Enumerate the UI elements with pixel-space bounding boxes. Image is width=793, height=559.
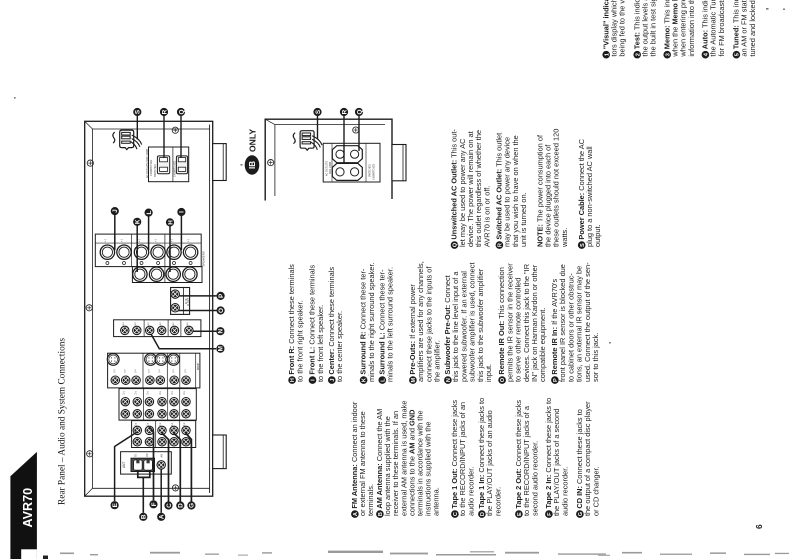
- svg-text:second audio recorder.: second audio recorder.: [530, 441, 539, 516]
- switched AC outlet: [157, 156, 169, 174]
- antenna terminal box: [121, 452, 172, 474]
- callout line D: [174, 433, 181, 502]
- svg-text:Q: Q: [178, 109, 185, 114]
- text item 2 Test: [632, 0, 657, 59]
- text item 4 Auto: [701, 0, 726, 59]
- svg-text:AM: AM: [161, 454, 164, 458]
- svg-text:J: J: [112, 209, 119, 213]
- AC outlet box: [149, 147, 189, 182]
- callout line F: [149, 427, 153, 500]
- svg-text:S: S: [315, 109, 322, 114]
- callout N: [216, 327, 224, 335]
- tape jack: [145, 426, 153, 434]
- callout P: [217, 292, 225, 300]
- text item S Power Cable: [577, 138, 602, 249]
- callout Q: [177, 108, 185, 116]
- AC outlet labels: [146, 148, 176, 178]
- callout I: [177, 208, 185, 216]
- text item B AM Antenna: [375, 401, 441, 518]
- tape jack: [170, 426, 178, 434]
- binding post: [151, 245, 165, 265]
- callout line L: [148, 213, 150, 250]
- power cable icon (main panel): [113, 130, 142, 150]
- svg-text:UNSWITCHED: UNSWITCHED: [173, 161, 176, 177]
- callout line N: [192, 330, 216, 332]
- callout E: [111, 501, 119, 509]
- video RCA jack: [146, 376, 154, 384]
- pre-out jack row box: [114, 320, 201, 337]
- text item I Front L: [308, 265, 325, 384]
- svg-text:AVR70: AVR70: [21, 488, 35, 528]
- IB ONLY label: [245, 129, 260, 175]
- IB callout line S: [317, 116, 319, 139]
- text item 3 Memo: [662, 0, 696, 59]
- video RCA jack: [182, 376, 190, 384]
- callout line R: [163, 116, 165, 158]
- screw: [268, 160, 274, 166]
- video RCA jack: [156, 376, 164, 384]
- IB AC outlet box: [323, 143, 380, 182]
- svg-text:R: R: [161, 109, 168, 114]
- audio jack: [145, 398, 153, 406]
- svg-text:B: B: [141, 514, 148, 519]
- svg-text:MAX 100W: MAX 100W: [329, 161, 332, 174]
- audio jack: [182, 398, 190, 406]
- binding post: [134, 245, 148, 265]
- IB callout S: [313, 108, 321, 116]
- svg-text:+ |: + |: [186, 239, 190, 242]
- screw: [353, 127, 359, 133]
- svg-text:I: I: [179, 211, 186, 213]
- FM antenna terminal 2: [144, 460, 153, 470]
- svg-text:MONIT: MONIT: [198, 362, 200, 370]
- IB switched outlet: [332, 146, 362, 163]
- AVR70 side tab: [10, 452, 48, 559]
- svg-text:the amplifier.: the amplifier.: [433, 340, 442, 382]
- main rear panel outline: [85, 121, 213, 496]
- svg-text:+ |: + |: [120, 239, 124, 242]
- svg-text:information into the tuner.: information into the tuner.: [687, 0, 696, 57]
- text item N Subwoofer Pre-Out: [443, 262, 493, 383]
- speaker terminal box upper: [95, 234, 201, 267]
- s-video connector: [168, 354, 180, 366]
- text item D Tape 1 In: [477, 398, 502, 518]
- s-video connector: [107, 354, 119, 366]
- svg-text:minals to the right surround s: minals to the right surround speaker.: [367, 262, 376, 382]
- s-video connector: [155, 354, 167, 366]
- scan edge noise: [60, 551, 789, 556]
- tape jack: [158, 426, 166, 434]
- IB foot tab: [392, 145, 406, 181]
- callout line A: [160, 470, 162, 513]
- speaker terminal box lower: [132, 267, 202, 283]
- text item A FM Antenna: [350, 401, 375, 518]
- svg-text:input.: input.: [484, 364, 493, 382]
- svg-text:ONLY: ONLY: [248, 129, 258, 152]
- text item Q Unswitched AC Outlet: [450, 129, 492, 249]
- binding post: [100, 245, 114, 265]
- callout D: [176, 501, 184, 509]
- tape jack: [182, 426, 190, 434]
- specks: [14, 8, 785, 344]
- audio jack row box: [119, 389, 196, 421]
- IR out jack: [171, 290, 179, 298]
- callout B: [139, 513, 147, 521]
- svg-text:6: 6: [754, 524, 764, 529]
- text item H Front R: [287, 264, 304, 384]
- tape labels: [135, 422, 187, 426]
- text item P Remote IR In: [550, 262, 600, 384]
- svg-text:compatible equipment.: compatible equipment.: [538, 308, 547, 382]
- svg-text:watts.: watts.: [560, 228, 569, 248]
- text item NOTE: [535, 129, 569, 248]
- svg-text:AVR70 is on or off.: AVR70 is on or off.: [482, 186, 491, 247]
- svg-text:ANT: ANT: [122, 462, 126, 468]
- IB callout R: [340, 108, 348, 116]
- svg-text:P: P: [218, 293, 225, 298]
- video RCA jack: [132, 376, 140, 384]
- callout K: [133, 218, 141, 226]
- audio jack: [133, 398, 141, 406]
- svg-text:C: C: [166, 503, 173, 508]
- IB unswitched outlet: [332, 163, 362, 180]
- callout line P: [177, 295, 217, 297]
- svg-text:M: M: [218, 346, 225, 351]
- callout line O: [177, 310, 217, 312]
- binding post: [183, 245, 197, 265]
- video RCA jack: [122, 376, 130, 384]
- binding post: [183, 267, 197, 281]
- svg-text:antenna.: antenna.: [432, 487, 441, 516]
- IB ONLY panel fragment: [265, 119, 392, 200]
- svg-text:sor to this jack.: sor to this jack.: [591, 333, 600, 382]
- antenna labels: [122, 454, 164, 468]
- svg-text:R: R: [341, 109, 348, 114]
- svg-text:F: F: [151, 502, 158, 506]
- binding post: [166, 267, 180, 281]
- svg-text:for FM broadcasts.: for FM broadcasts.: [717, 0, 726, 57]
- svg-text:AC OUTLETS (MAX 100W): AC OUTLETS (MAX 100W): [146, 148, 149, 178]
- svg-text:the built in test signal.: the built in test signal.: [649, 0, 658, 57]
- unswitched AC outlet: [176, 156, 187, 174]
- svg-text:+ |: + |: [154, 239, 158, 242]
- svg-text:terminals.: terminals.: [366, 484, 375, 516]
- callout line E: [115, 432, 137, 501]
- pre-out jack: [170, 326, 178, 334]
- svg-text:FM: FM: [146, 454, 149, 457]
- text item J Center: [327, 267, 344, 384]
- svg-text:SPEAKERS: SPEAKERS: [201, 251, 205, 266]
- video labels: [113, 362, 200, 372]
- callout J: [111, 207, 119, 215]
- svg-text:SWITCHED: SWITCHED: [154, 164, 157, 177]
- IB callout Q: [355, 108, 363, 116]
- callout line I: [180, 212, 182, 250]
- svg-text:A: A: [158, 514, 165, 519]
- text item M Pre-Outs: [408, 261, 442, 384]
- svg-text:output.: output.: [593, 224, 602, 247]
- text item F Tape 2 In: [544, 398, 569, 518]
- IB AC labels: [326, 161, 376, 180]
- IB callout line Q: [358, 116, 360, 151]
- svg-text:Rear Panel – Audio and System: Rear Panel – Audio and System Connection…: [57, 338, 68, 505]
- svg-text:G: G: [189, 503, 196, 508]
- text item C Tape 1 Out: [450, 400, 475, 518]
- svg-text:O: O: [218, 308, 225, 313]
- callout line B bracket: [138, 470, 150, 513]
- callout M: [216, 345, 224, 353]
- text item O Remote IR Out: [497, 263, 547, 384]
- callout line S: [136, 116, 138, 140]
- tape jack row box: [132, 421, 196, 448]
- IR labels: [185, 297, 190, 306]
- screw: [172, 127, 178, 133]
- callout H: [166, 218, 174, 226]
- callout line Q: [180, 116, 182, 158]
- svg-text:SWITCHED: SWITCHED: [369, 164, 372, 177]
- text item 5 Tuned: [732, 0, 757, 59]
- video jack row box: [108, 353, 200, 388]
- pre-out jack: [121, 326, 129, 334]
- IB callout line R: [343, 116, 345, 164]
- svg-text:+ |: + |: [103, 239, 107, 242]
- audio jack: [170, 398, 178, 406]
- text item R Switched AC Outlet: [495, 133, 529, 249]
- svg-text:D: D: [178, 503, 185, 508]
- binding post: [167, 245, 181, 265]
- svg-text:H: H: [167, 220, 174, 225]
- foot tab lower: [213, 435, 227, 469]
- callout F: [149, 500, 157, 508]
- svg-text:N: N: [218, 329, 225, 334]
- callout line G: [186, 433, 192, 502]
- callout R: [160, 108, 168, 116]
- callout G: [187, 501, 195, 509]
- svg-text:IB: IB: [248, 161, 257, 169]
- binding post: [133, 267, 147, 281]
- callout line H: [169, 222, 171, 272]
- video RCA jack: [170, 376, 178, 384]
- svg-text:to the front left speaker.: to the front left speaker.: [316, 305, 325, 382]
- svg-text:IR OUT: IR OUT: [187, 297, 190, 306]
- svg-text:tuned and locked.: tuned and locked.: [748, 0, 757, 57]
- text item K Surround R: [359, 262, 376, 383]
- speaker labels: [103, 239, 205, 267]
- svg-text:L: L: [146, 211, 153, 215]
- binding post: [117, 245, 131, 265]
- IR in jack: [171, 304, 179, 312]
- svg-text:minals to the left surround sp: minals to the left surround speaker.: [386, 267, 395, 382]
- callout S: [133, 108, 141, 116]
- pre-out labels: [122, 322, 189, 326]
- svg-text:UNSWITCHED: UNSWITCHED: [373, 164, 376, 180]
- screw: [87, 160, 93, 166]
- callout C: [164, 501, 172, 509]
- screw: [87, 451, 93, 457]
- tape jack: [133, 426, 141, 434]
- foot tab upper: [213, 144, 227, 181]
- svg-text:UNSWITCHED: UNSWITCHED: [150, 160, 153, 176]
- callout O: [217, 306, 225, 314]
- callout L: [145, 209, 153, 217]
- pre-out jack: [185, 326, 193, 334]
- video RCA jack: [111, 376, 119, 384]
- svg-text:E: E: [112, 502, 119, 507]
- svg-text:S: S: [135, 109, 142, 114]
- binding post: [149, 267, 163, 281]
- svg-text:being fed to the video monitor: being fed to the video monitor.: [618, 0, 627, 57]
- svg-text:audio recorder.: audio recorder.: [466, 467, 475, 516]
- pre-out jack: [146, 326, 154, 334]
- svg-text:recorder.: recorder.: [493, 487, 502, 516]
- audio jack: [158, 398, 166, 406]
- FM antenna terminal 1: [134, 460, 143, 470]
- remote IR jack box: [171, 288, 190, 315]
- text item E Tape 2 Out: [514, 400, 539, 518]
- callout A: [157, 513, 165, 521]
- text item L Surround L: [377, 267, 394, 384]
- audio jack: [121, 398, 129, 406]
- svg-text:Q: Q: [356, 109, 363, 114]
- audio labels: [123, 391, 187, 395]
- svg-text:to the center speaker.: to the center speaker.: [335, 311, 344, 382]
- svg-text:unit is turned on.: unit is turned on.: [519, 192, 528, 247]
- text item 1 Visual indicators: [601, 0, 626, 59]
- svg-text:to the front right speaker.: to the front right speaker.: [295, 300, 304, 382]
- screw: [86, 305, 92, 311]
- svg-text:audio recorder.: audio recorder.: [560, 467, 569, 516]
- callout line K: [136, 222, 138, 272]
- svg-text:or CD changer.: or CD changer.: [591, 466, 600, 516]
- callout line C: [162, 433, 169, 502]
- s-video connector: [145, 354, 157, 366]
- power cable icon (IB panel): [293, 131, 322, 151]
- pre-out jack: [133, 326, 141, 334]
- text item G CD IN: [575, 401, 600, 518]
- screw: [172, 485, 178, 491]
- svg-text:K: K: [135, 219, 142, 224]
- callout line J: [114, 211, 116, 250]
- callout line M: [151, 335, 216, 349]
- pre-out jack: [158, 326, 166, 334]
- AM antenna jack: [157, 461, 165, 469]
